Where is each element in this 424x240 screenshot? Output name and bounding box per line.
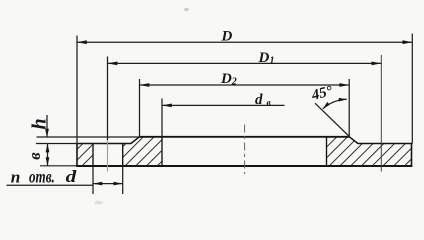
extension line d right (below bolt hole) (122, 167, 124, 195)
extension line for h (raised face top, extended left) (37, 136, 140, 138)
note underline / leader (7, 184, 93, 186)
arrowhead D2 left (140, 83, 150, 87)
arrowhead D right (403, 40, 413, 44)
svg-text:d: d (66, 167, 77, 186)
arrowhead D1 left (108, 62, 118, 66)
flange bottom outline (76, 165, 412, 167)
dimension line D (77, 41, 412, 43)
extension line d_b left (161, 99, 163, 137)
extension line for h/b (rim top, extended left) (36, 143, 77, 145)
arrowhead d left (93, 182, 102, 186)
arrowhead D1 right (372, 62, 382, 66)
extension line d left (below bolt hole) (92, 167, 94, 195)
dimension line D2 (140, 84, 350, 86)
extension line D2 left (139, 79, 141, 137)
dimension line h (outside arrow above) (46, 115, 48, 137)
angle arc 45deg (323, 99, 347, 109)
bore left wall (161, 137, 163, 166)
extension line D right (411, 34, 413, 144)
svg-text:1: 1 (270, 56, 275, 67)
left chamfer edge (131, 137, 140, 144)
arrowhead arc upper-right (339, 98, 347, 102)
hatched section: between bolt hole and bore, with chamfer (123, 137, 162, 166)
dimension line d (93, 183, 123, 185)
svg-text:в: в (25, 152, 44, 160)
arrowhead arc lower-left (323, 102, 330, 109)
flange central axis centerline (244, 125, 246, 175)
left rim top surface (76, 143, 131, 145)
bolt hole left wall (92, 144, 94, 167)
arrowhead d_b left (162, 104, 172, 108)
dimension line D1 (108, 62, 382, 64)
paper speck (184, 8, 189, 11)
svg-text:в: в (267, 99, 272, 109)
hatched section: left rim outboard of bolt hole (77, 144, 93, 167)
flange left edge (76, 144, 78, 167)
right chamfer edge (349, 137, 358, 144)
arrowhead d right (114, 182, 123, 186)
paper smudge lower-left (94, 201, 103, 205)
arrowhead D left (77, 40, 87, 44)
svg-text:отв.: отв. (29, 166, 55, 186)
svg-text:D: D (258, 50, 270, 66)
svg-text:n: n (11, 167, 21, 186)
svg-text:d: d (255, 92, 263, 108)
extension line D1 right (bolt axis through section) (380, 55, 382, 172)
hatched section: right half with chamfer (327, 137, 412, 166)
svg-text:45°: 45° (309, 83, 334, 104)
right rim top surface (358, 143, 413, 145)
bolt hole centerline (107, 140, 109, 172)
extension line D1 left (bolt axis above flange) (107, 57, 109, 141)
extension line D2 right (348, 79, 350, 136)
bolt hole right wall (122, 144, 124, 167)
arrowhead D2 right (339, 83, 349, 87)
arrowhead h down (45, 129, 49, 138)
arrowhead b up (46, 144, 50, 153)
flange right edge (411, 144, 413, 167)
svg-text:2: 2 (231, 77, 237, 88)
svg-text:D: D (221, 28, 233, 44)
svg-text:D: D (220, 71, 232, 87)
bore right wall (326, 137, 328, 166)
dimension line d_b (half, left arrow only) (162, 104, 285, 106)
extension line D left (76, 36, 78, 144)
svg-text:h: h (29, 118, 51, 129)
extension line for b (bottom, extended left) (40, 165, 77, 167)
dimension line b (47, 144, 49, 166)
raised face top surface (139, 136, 350, 138)
arrowhead b down (46, 157, 50, 166)
chamfer leader line 45deg (315, 103, 349, 136)
